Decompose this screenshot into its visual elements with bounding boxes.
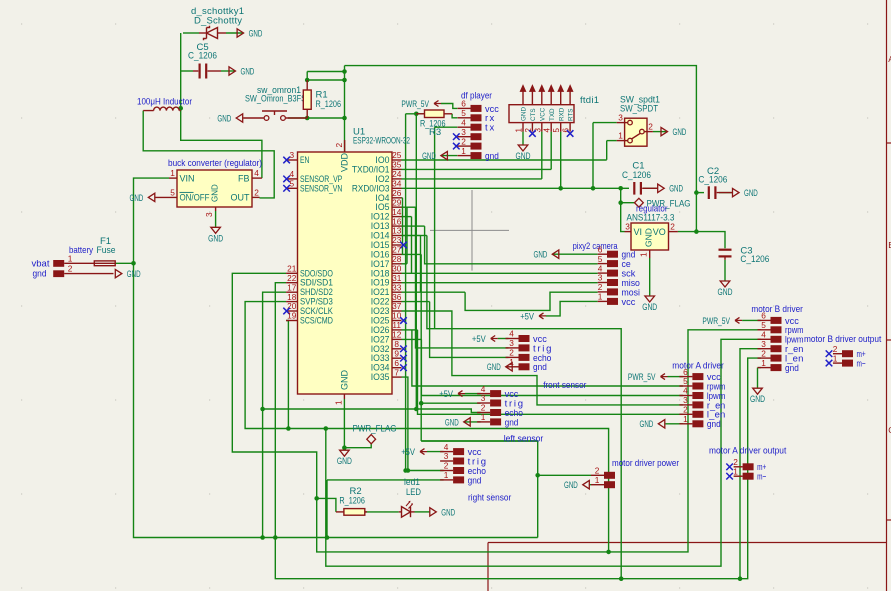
svg-text:3: 3 [509, 338, 514, 348]
svg-text:gnd: gnd [505, 417, 519, 428]
svg-text:tx: tx [485, 123, 494, 134]
svg-text:3: 3 [204, 212, 214, 217]
svg-text:IO12: IO12 [371, 212, 390, 222]
svg-text:2: 2 [761, 348, 766, 358]
svg-text:VI: VI [634, 227, 643, 237]
svg-text:1: 1 [761, 358, 766, 368]
svg-text:1: 1 [598, 292, 603, 302]
svg-text:GND: GND [642, 302, 657, 313]
svg-text:5: 5 [170, 187, 175, 197]
svg-text:35: 35 [392, 160, 402, 170]
svg-text:ftdi1: ftdi1 [580, 95, 599, 106]
svg-text:GND: GND [750, 394, 765, 405]
svg-text:pixy2 camera: pixy2 camera [573, 241, 619, 252]
svg-text:GND: GND [718, 287, 733, 298]
svg-text:EN: EN [300, 155, 309, 165]
svg-text:motor B driver: motor B driver [751, 304, 803, 315]
svg-text:left sensor: left sensor [504, 434, 544, 445]
svg-text:R_1206: R_1206 [339, 496, 365, 507]
svg-text:LED: LED [406, 487, 421, 498]
svg-text:2: 2 [461, 136, 466, 146]
svg-text:IO19: IO19 [371, 278, 390, 288]
svg-text:1: 1 [618, 130, 623, 140]
svg-text:1: 1 [444, 470, 449, 480]
svg-text:28: 28 [392, 254, 402, 264]
svg-text:19: 19 [287, 311, 297, 321]
svg-text:1: 1 [461, 146, 466, 156]
svg-text:SENSOR_VN: SENSOR_VN [300, 183, 342, 193]
svg-text:GND: GND [564, 480, 578, 491]
svg-text:IO14: IO14 [371, 231, 390, 241]
svg-text:11: 11 [392, 320, 401, 330]
svg-text:3: 3 [481, 393, 486, 403]
svg-text:VCC: VCC [539, 107, 546, 121]
svg-text:4: 4 [543, 128, 552, 133]
svg-text:GND: GND [130, 193, 144, 204]
svg-text:2: 2 [683, 405, 688, 415]
svg-text:ANS1117-3.3: ANS1117-3.3 [627, 212, 675, 223]
svg-text:5: 5 [761, 320, 766, 330]
svg-text:SDI/SD1: SDI/SD1 [300, 278, 333, 288]
svg-text:2: 2 [598, 282, 603, 292]
svg-text:7: 7 [394, 367, 399, 377]
svg-text:D_Schottty: D_Schottty [194, 16, 242, 27]
svg-text:100μH Inductor: 100μH Inductor [137, 97, 192, 108]
svg-text:TXD0/IO1: TXD0/IO1 [352, 164, 390, 174]
svg-text:1: 1 [833, 353, 838, 363]
svg-text:IO23: IO23 [371, 306, 390, 316]
svg-text:VIN: VIN [180, 173, 195, 183]
svg-text:3: 3 [444, 451, 449, 461]
svg-text:m−: m− [857, 359, 867, 370]
svg-text:+5V: +5V [520, 311, 534, 322]
svg-text:GND: GND [516, 151, 531, 162]
svg-text:+5V: +5V [472, 334, 486, 345]
svg-text:37: 37 [392, 301, 402, 311]
svg-text:34: 34 [392, 179, 402, 189]
svg-text:22: 22 [287, 273, 297, 283]
svg-text:2: 2 [334, 143, 344, 148]
svg-text:+5V: +5V [439, 389, 453, 400]
svg-text:R_1206: R_1206 [316, 99, 342, 110]
svg-text:+5V: +5V [401, 447, 415, 458]
svg-text:FB: FB [238, 173, 250, 183]
svg-text:GND: GND [211, 184, 220, 202]
svg-text:3: 3 [289, 150, 294, 160]
svg-text:battery: battery [69, 245, 93, 256]
svg-text:RXD0/IO3: RXD0/IO3 [352, 183, 390, 193]
svg-text:GND: GND [337, 456, 352, 467]
svg-text:RTS: RTS [568, 109, 575, 121]
svg-text:1: 1 [170, 168, 175, 178]
svg-text:3: 3 [625, 222, 630, 232]
svg-text:1: 1 [683, 414, 688, 424]
svg-text:1: 1 [515, 128, 524, 133]
svg-text:C_1206: C_1206 [622, 170, 651, 181]
svg-text:5: 5 [598, 254, 603, 264]
svg-text:GND: GND [339, 370, 349, 391]
svg-text:3: 3 [618, 112, 623, 122]
svg-text:gnd: gnd [468, 475, 482, 486]
svg-text:GND: GND [487, 362, 501, 373]
svg-text:motor driver power: motor driver power [612, 458, 679, 469]
svg-text:Fuse: Fuse [97, 245, 116, 256]
svg-text:GND: GND [673, 127, 687, 138]
svg-text:C_1206: C_1206 [740, 254, 769, 265]
svg-text:GND: GND [445, 417, 459, 428]
svg-text:PWR_FLAG: PWR_FLAG [353, 424, 397, 435]
svg-text:buck converter (regulator): buck converter (regulator) [168, 158, 262, 169]
svg-text:GND: GND [669, 184, 683, 195]
svg-text:gnd: gnd [33, 268, 47, 279]
svg-text:R3: R3 [429, 127, 441, 138]
svg-text:OUT: OUT [231, 193, 251, 203]
svg-text:2: 2 [648, 121, 653, 131]
svg-text:GND: GND [441, 507, 455, 518]
svg-text:m−: m− [757, 472, 767, 483]
svg-text:GND: GND [249, 28, 263, 39]
svg-text:9: 9 [394, 348, 399, 358]
svg-text:IO26: IO26 [371, 325, 390, 335]
svg-text:RXD: RXD [558, 107, 565, 121]
svg-text:1: 1 [333, 400, 343, 405]
svg-text:1: 1 [481, 412, 486, 422]
svg-text:5: 5 [289, 179, 294, 189]
svg-text:GND: GND [422, 151, 436, 162]
svg-text:GND: GND [534, 250, 548, 261]
svg-text:2: 2 [670, 222, 675, 232]
svg-text:gnd: gnd [707, 419, 721, 430]
svg-text:1: 1 [68, 253, 73, 263]
svg-text:VO: VO [653, 227, 666, 237]
svg-text:5: 5 [552, 128, 561, 133]
svg-text:PWR_5V: PWR_5V [702, 316, 730, 327]
svg-text:GND: GND [644, 228, 654, 247]
svg-text:SW_SPDT: SW_SPDT [620, 103, 658, 114]
svg-text:4: 4 [254, 168, 259, 178]
svg-text:GND: GND [640, 419, 654, 430]
svg-text:31: 31 [392, 273, 402, 283]
svg-text:2: 2 [68, 264, 73, 274]
svg-text:2: 2 [254, 187, 259, 197]
svg-text:front sensor: front sensor [543, 380, 586, 391]
svg-text:motor A driver: motor A driver [672, 361, 724, 372]
svg-text:ESP32-WROON-32: ESP32-WROON-32 [353, 136, 410, 147]
svg-text:1: 1 [733, 466, 738, 476]
svg-text:GND: GND [217, 113, 231, 124]
svg-text:motor B driver output: motor B driver output [804, 334, 882, 345]
svg-text:VDD: VDD [339, 152, 349, 172]
svg-text:13: 13 [392, 226, 402, 236]
svg-text:1: 1 [639, 252, 649, 257]
svg-text:GND: GND [127, 269, 141, 280]
svg-text:IO35: IO35 [371, 372, 390, 382]
svg-text:TXD: TXD [549, 108, 556, 121]
svg-text:gnd: gnd [533, 362, 547, 373]
svg-text:SCS/CMD: SCS/CMD [300, 316, 333, 326]
svg-text:GND: GND [241, 66, 255, 77]
svg-text:PWR_5V: PWR_5V [628, 372, 656, 383]
svg-text:SCK/CLK: SCK/CLK [300, 306, 333, 316]
svg-text:14: 14 [392, 207, 402, 217]
svg-text:GND: GND [521, 107, 528, 121]
svg-text:right sensor: right sensor [468, 493, 511, 504]
svg-text:GND: GND [744, 188, 758, 199]
svg-text:ON/OFF: ON/OFF [180, 193, 210, 203]
svg-text:gnd: gnd [485, 151, 499, 162]
svg-text:gnd: gnd [785, 363, 799, 374]
svg-text:IO17: IO17 [371, 259, 390, 269]
svg-text:motor A driver output: motor A driver output [709, 446, 787, 457]
svg-text:4: 4 [461, 117, 466, 127]
svg-text:PWR_5V: PWR_5V [401, 99, 429, 110]
svg-text:C_1206: C_1206 [698, 175, 727, 186]
svg-text:1: 1 [595, 475, 600, 485]
svg-text:CTS: CTS [530, 108, 537, 121]
svg-text:SW_Omron_B3FS: SW_Omron_B3FS [245, 94, 306, 105]
svg-text:GND: GND [208, 233, 223, 244]
svg-text:C_1206: C_1206 [188, 51, 217, 62]
svg-text:IO33: IO33 [371, 353, 390, 363]
svg-text:5: 5 [683, 376, 688, 386]
svg-text:vcc: vcc [622, 297, 636, 308]
